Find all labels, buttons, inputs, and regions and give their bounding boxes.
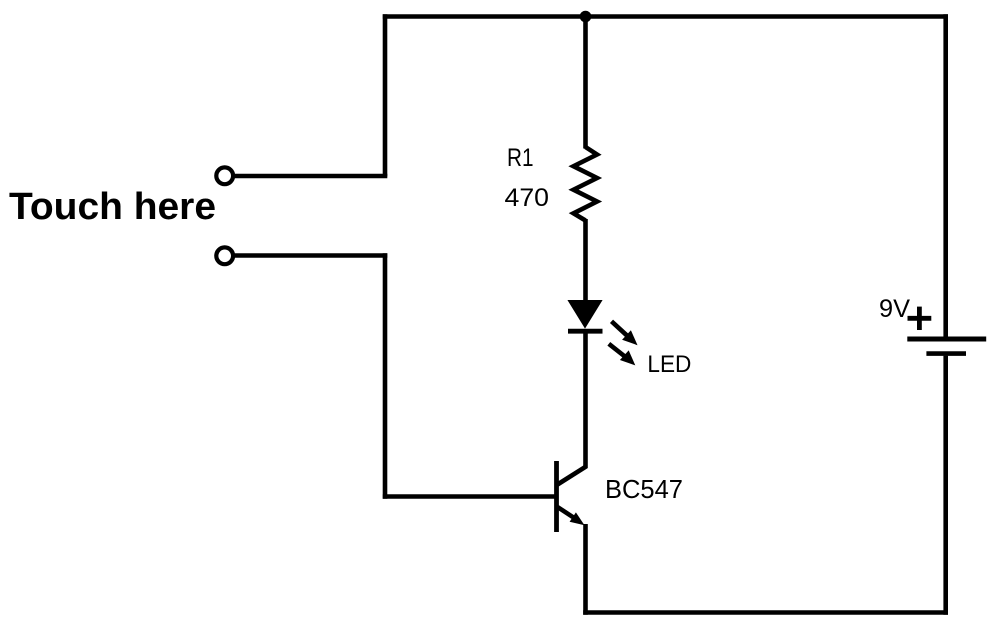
LED cathode bar bbox=[568, 329, 603, 334]
battery plus sign horizontal stroke bbox=[908, 316, 932, 321]
svg-text:BC547: BC547 bbox=[605, 476, 683, 504]
LED D1 triangle (anode) bbox=[568, 301, 601, 328]
wire base horizontal into transistor Q1 base bbox=[383, 494, 557, 499]
wire from junction down to resistor R1 top bbox=[583, 17, 588, 149]
svg-text:9V: 9V bbox=[879, 295, 910, 323]
battery B1 positive long plate bbox=[907, 337, 986, 342]
transistor Q1 emitter arrowhead bbox=[570, 512, 585, 525]
svg-text:Touch here: Touch here bbox=[9, 186, 216, 228]
node junction dot at top of R1 bbox=[580, 11, 592, 23]
LED light arrow 2 head bbox=[620, 350, 635, 365]
transistor Q1 base bar bbox=[554, 461, 559, 532]
battery plus sign vertical stroke bbox=[917, 307, 922, 330]
svg-text:R1: R1 bbox=[507, 144, 534, 172]
touch terminal lower circle bbox=[216, 247, 233, 264]
wire emitter vertical down to bottom rail bbox=[583, 524, 588, 615]
wire upper touch contact horizontal bbox=[235, 174, 388, 179]
LED light arrow 1 head bbox=[622, 330, 637, 345]
wire lower-left vertical from lower touch contact down to base wire bbox=[383, 253, 388, 499]
wire right vertical from top rail down to battery positive plate bbox=[943, 14, 948, 337]
transistor Q1 emitter diagonal shaft bbox=[558, 507, 576, 519]
wire top rail from left branch to battery positive bbox=[383, 14, 948, 19]
transistor Q1 collector diagonal bbox=[558, 466, 587, 484]
wire right vertical from battery negative plate down to bottom rail bbox=[943, 356, 948, 615]
LED light arrow 2 shaft bbox=[609, 344, 626, 357]
resistor R1 zigzag body bbox=[574, 147, 598, 221]
touch terminal upper circle bbox=[216, 167, 233, 184]
wire lower touch contact horizontal bbox=[235, 253, 388, 258]
svg-text:LED: LED bbox=[647, 351, 691, 378]
LED light arrow 1 shaft bbox=[612, 321, 629, 336]
wire bottom rail from emitter to battery negative bbox=[583, 610, 948, 615]
wire upper-left vertical from top rail down to upper touch contact bbox=[383, 14, 388, 176]
battery B1 negative short plate bbox=[926, 351, 966, 356]
wire from LED cathode down to transistor collector bbox=[583, 331, 588, 468]
wire from resistor bottom down to LED anode bbox=[583, 219, 588, 305]
svg-text:470: 470 bbox=[505, 184, 550, 212]
